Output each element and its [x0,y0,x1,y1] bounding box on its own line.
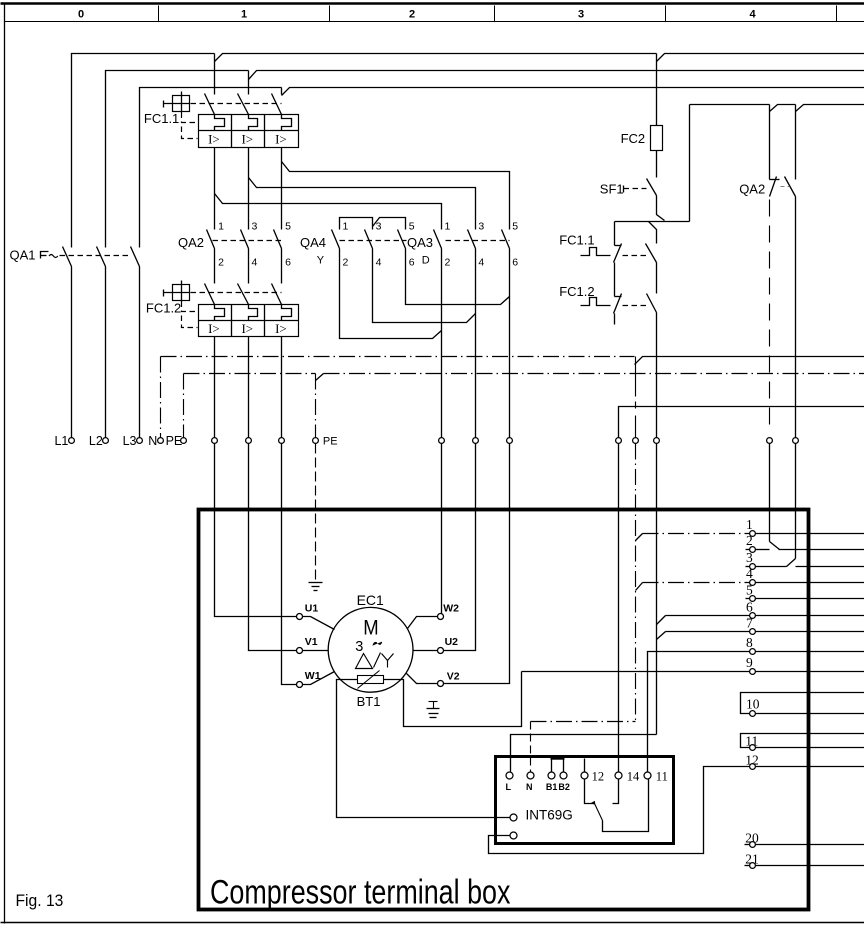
wire V2 feed [444,444,510,684]
svg-text:V1: V1 [305,636,318,648]
motor link V1 [303,650,329,652]
terminal L3 [137,438,143,444]
switch QA1 [41,247,140,438]
ground PE (in box) [315,444,317,581]
contactor QA2 [207,230,283,284]
terminal 11 (INT69G) [644,772,651,779]
terminal PE2 [313,438,319,444]
svg-text:L1: L1 [54,434,68,448]
terminal L (INT69G) [506,772,513,779]
switch SF1 [623,186,625,193]
overload element FC1.2 [215,305,225,321]
svg-text:FC1.2: FC1.2 [146,300,181,315]
wire terminal 5 out [756,598,864,600]
wire terminal 4 out [756,582,864,584]
motor link U1 [303,617,335,630]
left circle 1 (INT69G aux) [510,814,517,821]
contact blade FC1.2 [272,284,282,305]
wire [248,337,250,438]
svg-text:2: 2 [445,257,451,269]
svg-text:1: 1 [343,220,349,232]
motor EC1 [328,607,413,692]
wire QA4-4 to QA3-4 [373,249,476,323]
contact blade QA4 [398,230,406,249]
wire to terminal 4 (dash-dot) [643,582,750,584]
svg-text:1: 1 [445,220,451,232]
wire [214,249,216,284]
wire to terminal 1 (dash-dot) [643,533,750,535]
contact FC1.1 aux NC [615,245,622,247]
terminal L2 [103,438,109,444]
breaker FC1.1 [164,54,299,148]
overload element FC1.1 [249,115,258,131]
svg-text:3: 3 [376,220,382,232]
wire N-drop to INT69G N [531,721,636,723]
svg-text:2: 2 [409,9,415,21]
wire BT1 right to terminal 9 [384,672,522,727]
wire control chain down [656,313,658,438]
svg-text:BT1: BT1 [357,694,381,709]
svg-text:U2: U2 [445,636,459,648]
contact blade QA1 [63,247,72,267]
terminal W2 feed [439,438,445,444]
contact blade QA4 [365,230,373,249]
svg-text:QA2: QA2 [178,235,204,250]
svg-text:L: L [506,782,512,792]
svg-text:I>: I> [208,132,220,147]
svg-text:3: 3 [478,220,484,232]
wire to terminal 5 stub [746,598,750,600]
svg-text:6: 6 [409,257,415,269]
terminal 2 [750,547,756,553]
wire QA2-NO to terminal 3 [795,197,797,438]
svg-text:6: 6 [512,257,518,269]
svg-text:QA4: QA4 [300,235,326,250]
terminal V1 feed [246,438,252,444]
wire QA2-NC to terminal 2 [769,200,771,428]
wire terminal 9 out [756,671,864,673]
svg-text:EC1: EC1 [357,592,384,608]
terminal W1 feed [279,438,285,444]
contact blade QA3 [434,230,442,249]
contact blade FC1.2 [238,284,249,305]
terminal 11 (row) [750,745,756,751]
svg-text:L2: L2 [89,434,103,448]
svg-text:I>: I> [241,132,253,147]
wire bus L1 top [72,54,215,248]
terminal QA2-NO out [793,438,799,444]
contact blade QA3 [502,230,510,249]
svg-text:4: 4 [376,257,382,269]
wire SF1 out [657,196,665,221]
ground motor frame [429,701,438,703]
svg-text:FC2: FC2 [621,131,646,146]
svg-text:D: D [422,254,430,266]
terminal QA2-NC out [767,438,773,444]
terminal 14 (INT69G) [615,772,622,779]
svg-text:M: M [363,617,378,640]
terminal 1 [750,531,756,537]
contact blade QA1 [131,247,140,267]
wire to terminal 7 [666,631,750,633]
wire drop [248,71,250,95]
svg-text:4: 4 [252,257,258,269]
wire terminal 8 out [756,651,864,653]
svg-text:N: N [526,782,533,792]
terminal N (INT69G) [527,772,534,779]
wire drop [281,88,283,95]
wire N-drop [635,357,637,438]
svg-text:11: 11 [745,733,758,748]
wire [475,249,477,438]
terminal V1 [297,648,303,654]
wire [441,249,443,438]
terminal U1 [297,614,303,620]
contact QA2 aux NO [795,105,797,180]
svg-text:6: 6 [746,600,753,615]
svg-text:INT69G: INT69G [526,808,573,823]
relay contact internal 12-14-11 [585,779,595,804]
wire terminal 6 out [756,615,864,617]
wire [105,267,107,438]
wire to terminal 3 stub [746,566,750,568]
wire PE continuation right [316,374,324,381]
wire BT1 left to INT69G [337,680,510,818]
thermistor BT1 [358,676,384,684]
svg-text:B1: B1 [546,782,558,792]
svg-text:Y: Y [317,254,325,266]
contact blade FC1.1 [238,94,249,115]
node PE line [184,373,316,375]
wire terminal 3 out [756,566,787,568]
wire N continuation right [635,357,864,365]
contact blade FC1.1 [272,94,282,115]
node N line [161,356,635,358]
svg-text:W2: W2 [443,602,459,614]
wire [509,249,511,438]
wire terminal 7 out [756,631,864,633]
terminal control chain [654,438,660,444]
contact blade QA1 [97,247,106,267]
svg-text:9: 9 [746,655,753,670]
wire QA2-aux feed line [690,104,770,106]
terminal U2 feed [473,438,479,444]
overload element FC1.2 [282,305,292,321]
contact blade QA4 [332,230,340,249]
svg-text:QA1: QA1 [10,247,36,262]
svg-text:10: 10 [746,697,760,712]
wire 12 stub [584,759,586,772]
svg-text:3: 3 [252,220,258,232]
svg-text:0: 0 [78,9,84,21]
svg-text:5: 5 [512,220,518,232]
svg-text:I>: I> [208,321,220,336]
pin numbers QA2 QA4 QA3 [218,220,518,268]
terminal 4 [750,580,756,586]
wire N-drop to terminal 4 [636,583,643,591]
terminal B2 [560,772,567,779]
terminal W2 [438,614,444,620]
wire QA4-2 to QA3-2 [340,249,442,339]
wire V1 feed [249,444,297,651]
wire U1 feed [215,444,297,617]
terminal 7 [750,629,756,635]
svg-text:QA2: QA2 [739,181,765,196]
terminal W1 [297,682,303,688]
terminal 20 [750,842,756,848]
wire to terminal 8 and INT69G 11 [648,652,750,772]
svg-text:8: 8 [746,635,753,650]
svg-text:FC1.1: FC1.1 [144,111,179,126]
svg-text:QA3: QA3 [407,235,433,250]
wire H1 [615,221,690,223]
svg-text:1: 1 [218,220,224,232]
wire QA4-6 to QA3-6 [406,249,510,305]
wire to terminal 6 [666,615,750,617]
svg-text:5: 5 [746,583,753,598]
svg-text:PE: PE [323,436,338,448]
wire W2 feed [441,444,443,614]
wire to terminal 2 stub [746,549,750,551]
svg-text:Fig. 13: Fig. 13 [16,891,64,909]
motor link W2 [408,617,438,629]
svg-text:FC1.2: FC1.2 [559,284,594,299]
terminal 12 (row) [750,764,756,770]
terminal V2 [438,681,444,687]
contactor QA3 [434,230,510,438]
svg-text:7: 7 [746,616,753,631]
svg-text:PE: PE [166,434,183,448]
svg-text:2: 2 [343,257,349,269]
terminal 10 [750,711,756,717]
wire INT69G aux2 to terminal 12 [489,767,750,854]
wire chain to terminal 6 [657,616,666,625]
svg-text:U1: U1 [305,602,319,614]
overload element FC1.1 [215,115,225,131]
contactor QA4 [332,218,510,339]
svg-text:12: 12 [745,753,759,768]
contact QA2 aux NC [769,105,771,180]
terminal B1 [548,772,555,779]
fuse FC2 [656,54,658,126]
wire bus L2 top [106,71,249,248]
wire FC1.1 pole3 to QA2/QA3 [281,148,283,230]
terminal 12 (INT69G) [581,772,588,779]
svg-text:I>: I> [275,321,287,336]
contact FC1.1 aux NO [649,222,657,244]
contact blade QA2 [274,230,282,249]
motor winding symbols delta/wye [356,653,394,669]
contact blade QA3 [468,230,476,249]
wire [214,337,216,438]
terminal 3 [750,564,756,570]
overload element FC1.2 [249,305,258,321]
svg-text:I>: I> [241,321,253,336]
terminal 9 [750,669,756,675]
contact blade QA2 [241,230,249,249]
terminal 8 [750,649,756,655]
svg-text:B2: B2 [558,782,570,792]
svg-text:2: 2 [218,257,224,269]
svg-text:SF1: SF1 [600,181,624,196]
svg-text:4: 4 [749,9,756,21]
wire W1 feed [282,444,297,685]
terminal U2 [438,648,444,654]
svg-text:I>: I> [275,132,287,147]
wire terminal 1 out [756,533,864,535]
svg-text:2: 2 [746,533,753,548]
wire terminal 2 out [756,549,770,551]
svg-text:21: 21 [745,852,759,867]
terminal N [158,438,164,444]
svg-text:4: 4 [478,257,484,269]
compressor terminal box [199,510,809,910]
terminal V2 feed [507,438,513,444]
wire N-drop to terminal 1 [636,534,643,541]
terminal 6 [750,613,756,619]
svg-text:1: 1 [746,517,753,532]
wire chain to terminal 7 [657,632,666,640]
breaker FC1.2 [164,281,299,438]
wire FC1.1 pole1 to QA2/QA3 [214,148,216,230]
svg-text:FC1.1: FC1.1 [559,233,594,248]
wire to terminal 9 [522,671,750,673]
wire FC1.1 pole2 to QA2/QA3 [248,148,250,230]
overload element FC1.1 [282,115,292,131]
motor link V2 [407,674,438,684]
svg-text:14: 14 [627,769,640,783]
wire B1 B2 stubs [551,759,553,772]
svg-text:1: 1 [241,9,247,21]
svg-text:5: 5 [285,220,291,232]
svg-text:Compressor terminal box: Compressor terminal box [210,872,511,911]
contact blade FC1.1 [205,94,215,115]
terminal 21 [750,863,756,869]
wire [248,249,250,284]
terminal PE [181,438,187,444]
wire U2 feed [444,444,476,651]
wire [281,249,283,284]
svg-text:11: 11 [656,769,668,783]
wire drop [214,54,216,95]
terminal L1 [69,438,75,444]
left circle 2 (INT69G aux) [510,832,517,839]
wire bus L3 top [140,88,282,248]
protection module INT69G [496,757,674,844]
contact blade FC1.2 [205,284,215,305]
contact FC1.2 aux NO [647,294,657,313]
svg-text:L3: L3 [123,434,137,448]
svg-text:6: 6 [285,257,291,269]
wire [71,267,73,438]
contact blade QA2 [207,230,215,249]
contact FC1.2 aux NC [615,296,622,298]
motor link W1 [303,672,335,685]
svg-text:3: 3 [355,639,363,655]
wire chain to INT69G L [511,735,657,772]
terminal U1 feed [212,438,218,444]
motor link U2 [413,650,438,652]
terminal 5 [750,596,756,602]
svg-text:3: 3 [578,9,584,21]
terminal 14-line [616,438,622,444]
svg-text:20: 20 [745,831,759,846]
terminal N-drop [633,438,639,444]
svg-text:5: 5 [409,220,415,232]
contact blade SF1 [647,179,657,196]
svg-text:N: N [148,434,157,448]
svg-text:12: 12 [592,769,605,783]
wire [139,267,141,438]
svg-text:V2: V2 [447,671,460,683]
wire line-406 to INT69G 14 [619,407,864,438]
wire [281,337,283,438]
